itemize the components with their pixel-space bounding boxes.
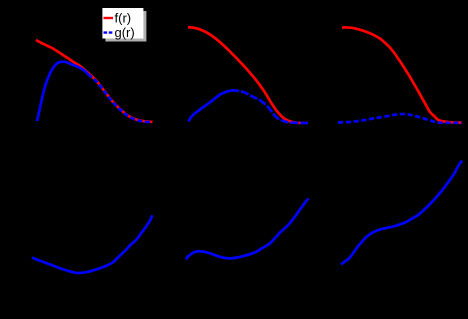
blue solid curve, bottom-right subplot [341,161,462,265]
curve f(r) red solid, top-right subplot [342,27,462,122]
curve g(r) blue rising part, top-left subplot [37,62,88,121]
blue solid curve, bottom-left subplot [32,215,152,273]
legend handle g(r) blue dashed line [104,31,114,33]
legend shadow [105,11,146,42]
curve g(r) blue dashed, top-right subplot [338,114,462,123]
svg-text:f(r): f(r) [115,10,132,25]
curve g(r) blue dashed part, top-middle subplot [231,90,308,123]
curve f(r) red solid, top-middle subplot [188,27,308,123]
svg-text:g(r): g(r) [115,25,135,40]
legend handle f(r) red line [104,17,114,19]
curve f(r) red solid, top-left subplot [36,40,153,122]
blue solid curve, bottom-middle subplot [186,199,308,260]
curve g(r) blue solid rise, top-middle subplot [189,91,232,122]
curve g(r) blue dashed tail over f(r), top-left subplot [88,74,153,122]
legend box [102,8,143,39]
